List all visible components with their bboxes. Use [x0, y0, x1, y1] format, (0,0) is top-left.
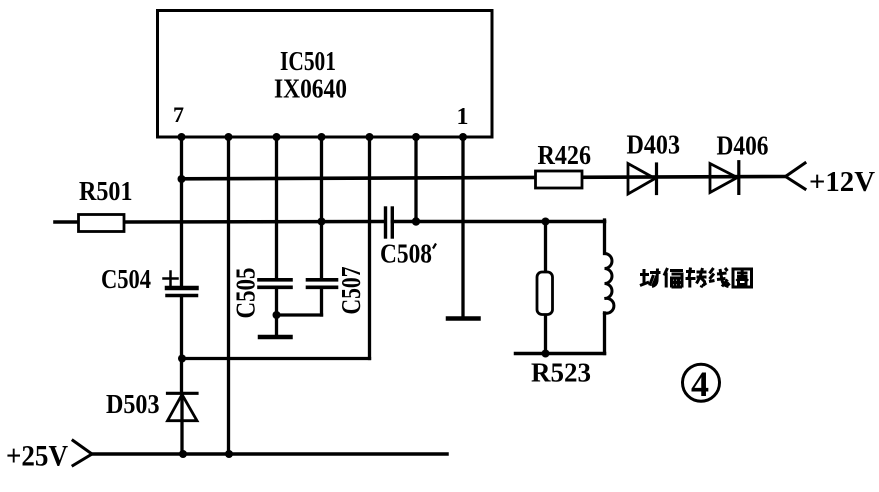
- char 偏: [664, 268, 683, 288]
- svg-text:C508: C508: [380, 239, 432, 269]
- node wire2/R523 junction: [542, 218, 550, 226]
- resistor R523 box: [537, 272, 553, 315]
- node pin6 / +25V rail junction: [225, 450, 233, 458]
- svg-text:7: 7: [173, 102, 184, 127]
- capacitor C504 plates (electrolytic): [167, 286, 197, 291]
- svg-text:D503: D503: [106, 389, 160, 419]
- wire : pin2 vertical x=416 from IC bottom to wire2: [414, 137, 417, 222]
- node pin7 dot: [178, 133, 186, 141]
- labels: [79, 46, 469, 319]
- label 场偏转线圈 (drawn strokes): [640, 268, 752, 288]
- node : circled figure 4: [683, 364, 720, 401]
- wire : pin4 vertical x=321.5 from IC bottom to C507: [320, 137, 323, 279]
- svg-text:D406: D406: [717, 131, 769, 161]
- wire : pin3 vertical x=369 from IC bottom to y=358.5 bus: [368, 137, 371, 359]
- svg-text:IX0640: IX0640: [274, 74, 347, 104]
- connector arrow +12V: [786, 163, 806, 189]
- wire : pin1 vertical x=463 from IC bottom to ground: [461, 137, 464, 317]
- node pin3 dot: [366, 133, 374, 141]
- wire : R523/coil bottom wire y=353.5: [516, 352, 605, 356]
- wire : pin7 vertical x=181.5 from IC bottom to +25V rail: [180, 137, 183, 287]
- svg-text:+12V: +12V: [809, 166, 875, 198]
- node pin4 dot: [318, 133, 326, 141]
- ground : below C505: [260, 335, 291, 340]
- char 场: [640, 269, 661, 287]
- wire : +25V bottom rail y=454: [92, 452, 447, 456]
- svg-text:1: 1: [457, 104, 469, 130]
- svg-text:C505: C505: [231, 268, 261, 319]
- node C505 bottom junction: [273, 311, 281, 319]
- wire : pin5 vertical x=276.5 from IC bottom to C505: [275, 137, 278, 279]
- wire : horizontal C505-C507 bottoms y=315: [277, 313, 322, 316]
- node pin5 dot: [273, 133, 281, 141]
- diode D403 triangle + cathode: [628, 164, 655, 195]
- svg-text:IC501: IC501: [280, 46, 336, 76]
- connector arrow +25V: [73, 441, 92, 466]
- svg-text:R501: R501: [79, 176, 133, 206]
- capacitor C508 plates (series in wire2): [384, 208, 387, 237]
- svg-text:R523: R523: [531, 358, 591, 388]
- wire : y=358.5 bus from C504 bottom to pin3 vertical: [182, 357, 370, 360]
- svg-text:C504: C504: [101, 264, 151, 294]
- inductor L : deflection coil vertical leads: [603, 220, 606, 254]
- wire : R523 vertical: [544, 222, 547, 273]
- char 圈: [733, 269, 752, 287]
- char 转: [686, 268, 707, 288]
- IC IC501 (IX0640) body box: [158, 11, 493, 138]
- node D503 / +25V rail junction: [179, 450, 187, 458]
- wire : horizontal wire1 y=178.5 to +12V branch: [182, 177, 787, 179]
- resistor R426 box: [536, 171, 583, 188]
- capacitor C504 polarity +: [164, 277, 178, 280]
- capacitor C505 plates: [259, 278, 291, 282]
- wire : C507 bottom vertical: [320, 289, 323, 315]
- svg-text:R426: R426: [538, 140, 592, 170]
- node wire2/pin2 junction: [412, 217, 420, 225]
- svg-text:D403: D403: [627, 130, 681, 160]
- diode D406 triangle + cathode: [710, 164, 737, 193]
- node pin6 dot: [225, 133, 233, 141]
- node wire1/pin7 junction: [178, 175, 186, 183]
- wire : C505 bottom to ground: [275, 289, 278, 336]
- inductor L : coil bumps: [605, 254, 614, 314]
- resistor R501 box: [79, 215, 125, 232]
- node pin2 dot: [412, 133, 420, 141]
- wire : horizontal wire2 right of C508 to coil corner: [393, 220, 605, 224]
- ground : below pin1 vertical: [448, 316, 479, 321]
- wire : horizontal wire2 y=221.5 left portion from R501: [55, 220, 79, 224]
- char 线: [709, 268, 730, 287]
- diode D503 (zener-style, pointing up): [168, 392, 198, 395]
- svg-text:4: 4: [691, 364, 709, 404]
- svg-text:C507: C507: [336, 267, 366, 315]
- node pin1 dot: [459, 133, 467, 141]
- node R523 bottom junction: [542, 350, 550, 358]
- wire : pin6 vertical x=228.5 from IC bottom to +25V rail: [227, 137, 230, 454]
- svg-text:+25V: +25V: [6, 441, 68, 473]
- node wire2/pin4 junction: [318, 218, 326, 226]
- node C504 bottom / bus junction: [178, 355, 186, 363]
- capacitor C507 plates: [308, 278, 337, 282]
